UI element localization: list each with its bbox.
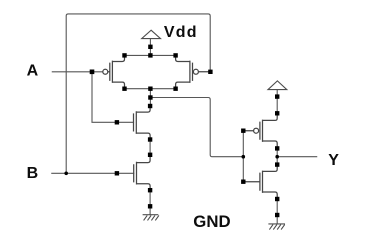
nmos M3 (series top, gate=A) [134,106,151,140]
wire net A branch: down to NMOS M3 gate [92,72,134,123]
junction NAND drain rail [148,87,152,91]
pin square M3 drain [148,104,152,108]
pin square M1 drain [122,87,126,91]
pin square M3 gate [115,120,119,124]
power symbol Vdd left (triangle) [142,30,161,38]
pin square M6 gate [241,180,245,184]
wire NAND output node vertical [149,89,151,106]
pin square M5 source [275,111,279,115]
svg-text:B: B [27,165,39,182]
pin square M2 source [173,53,177,57]
pin square M2 gate [208,70,212,74]
svg-text:A: A [27,63,39,80]
pmos M5 (inverter) [246,113,278,148]
svg-text:Y: Y [328,152,339,169]
junction NAND output branch [148,95,152,99]
svg-text:Vdd: Vdd [164,24,198,41]
pin square M4 gate [115,171,119,175]
wire to left ground [149,190,151,215]
wire inverter gate vertical [242,131,244,182]
svg-text:GND: GND [193,212,231,231]
ground symbol right [268,224,285,230]
pin square Vdd right [275,94,279,98]
wire NAND output routing to inverter input [150,98,243,157]
pmos M1 (left of NAND pair, gate=A) [103,55,125,88]
junction Vdd rail [148,53,152,57]
wire inverter output vertical [276,148,278,164]
pin square M2 drain [173,87,177,91]
pin square M6 drain [275,162,279,166]
pin square ground left [148,204,152,208]
power symbol Vdd right (triangle) [268,81,287,90]
wire net B: input B horizontal to NMOS M4 gate [52,172,134,174]
wire Vdd stem right [276,90,278,114]
wire output Y [277,156,317,158]
wire to right ground [276,199,278,224]
pin square ground right [275,213,279,217]
pin square M3 source [148,137,152,141]
wire net A: input A horizontal [52,71,102,73]
wire between series NMOS M3/M4 [149,140,151,155]
wire Vdd stem left [149,39,151,56]
junction inverter output [275,155,279,159]
nmos M4 (series bottom, gate=B) [134,155,150,190]
pin square M5 drain [275,146,279,150]
wire net B: left vertical + top rail to right PMOS gate [66,14,210,173]
junction node B input [64,172,68,176]
ground symbol left [143,215,159,221]
pin square M1 source [122,53,126,57]
nmos M6 (inverter) [246,165,278,199]
wire NAND drain rail (bottom of PMOS pair) [125,88,176,90]
junction inverter input [242,155,246,159]
pin square M4 drain [148,153,152,157]
pin square M5 gate [241,129,245,133]
wire Vdd top rail of PMOS pair [125,54,176,56]
pin square M1 gate / node A junction [90,70,95,75]
pin square M4 source [148,188,152,192]
pin square Vdd left [148,45,152,49]
pmos M2 (right of NAND pair, gate=B, mirrored) [176,55,209,88]
pin square M6 source [275,197,279,201]
